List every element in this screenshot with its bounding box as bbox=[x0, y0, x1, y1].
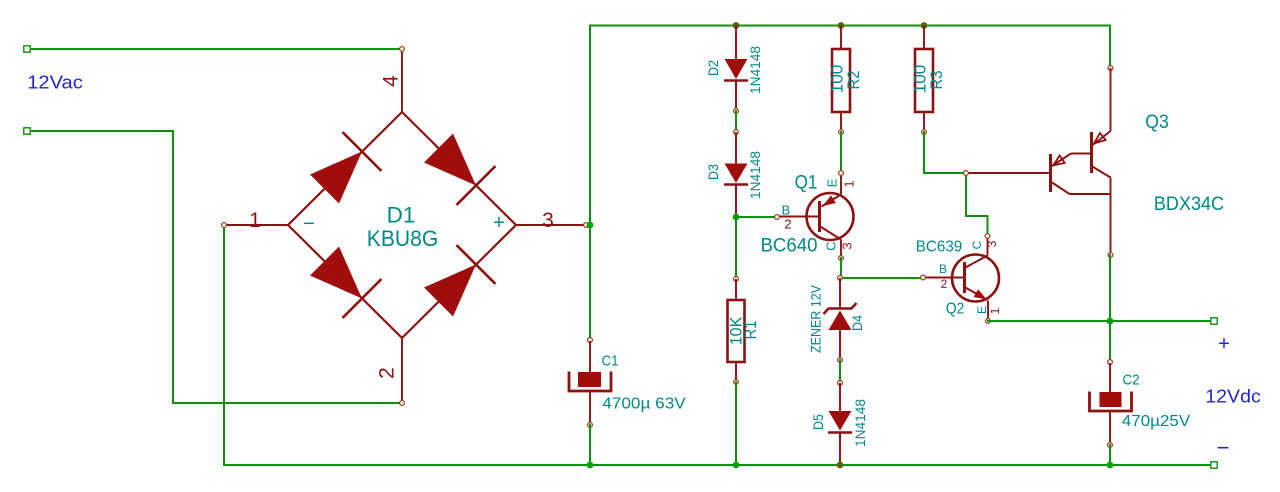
wire-end square bottom rail right bbox=[1211, 462, 1217, 468]
svg-text:Q2: Q2 bbox=[946, 301, 965, 318]
svg-text:1: 1 bbox=[988, 307, 1002, 314]
svg-text:BC640: BC640 bbox=[761, 236, 818, 257]
junction bottom rail at R1 bbox=[733, 462, 740, 469]
wire-end square output plus bbox=[1211, 318, 1217, 324]
wire input A horizontal bbox=[27, 48, 402, 50]
svg-text:1N4148: 1N4148 bbox=[747, 151, 763, 199]
bridge D1 diode upper-right bbox=[424, 134, 476, 186]
svg-text:1N4148: 1N4148 bbox=[747, 46, 763, 94]
svg-text:D1: D1 bbox=[387, 203, 416, 228]
wire C2 to bottom rail bbox=[1109, 445, 1111, 465]
svg-text:12Vdc: 12Vdc bbox=[1205, 386, 1261, 407]
resistor R1 bbox=[728, 277, 745, 385]
svg-text:BC639: BC639 bbox=[916, 239, 963, 256]
wire node to Q2 collector jog bbox=[966, 173, 988, 236]
svg-text:4700µ 63V: 4700µ 63V bbox=[602, 396, 686, 413]
junction top rail at D2 bbox=[733, 22, 740, 29]
svg-text:C: C bbox=[970, 240, 984, 249]
svg-text:D2: D2 bbox=[705, 60, 721, 76]
svg-text:R1: R1 bbox=[741, 321, 760, 340]
svg-text:KBU8G: KBU8G bbox=[367, 226, 439, 251]
svg-text:2: 2 bbox=[784, 217, 791, 232]
svg-text:4: 4 bbox=[380, 75, 403, 87]
svg-text:R3: R3 bbox=[927, 71, 946, 90]
svg-text:BDX34C: BDX34C bbox=[1154, 193, 1224, 215]
wire pin1 down bbox=[223, 225, 225, 465]
wire R3 to Q3 base bbox=[924, 172, 966, 174]
svg-text:B: B bbox=[782, 203, 791, 218]
wire D2 to D3 bbox=[735, 111, 737, 132]
wire top rail to Q3 emitter bbox=[1109, 26, 1111, 69]
svg-text:3: 3 bbox=[542, 209, 554, 232]
wire Q3 collector down bbox=[1109, 255, 1111, 362]
svg-text:E: E bbox=[825, 178, 840, 187]
wire bridge+ vertical bbox=[589, 26, 591, 341]
wire-end square input A bbox=[24, 46, 30, 52]
diode D3 bbox=[724, 130, 748, 217]
svg-text:2: 2 bbox=[376, 367, 399, 379]
resistor R3 bbox=[915, 26, 933, 135]
svg-text:3: 3 bbox=[985, 240, 999, 247]
wire D3 junction to Q1 base bbox=[736, 216, 777, 218]
junction node D3-R1-Q1B bbox=[733, 214, 740, 221]
zener diode D4 bbox=[824, 276, 857, 363]
svg-text:+: + bbox=[493, 212, 505, 234]
svg-text:Q1: Q1 bbox=[795, 173, 818, 194]
wire D4 to D5 bbox=[839, 360, 841, 383]
svg-text:C1: C1 bbox=[601, 353, 618, 370]
junction bottom rail at C2 bbox=[1107, 462, 1114, 469]
svg-text:−: − bbox=[1217, 435, 1230, 460]
capacitor C1 bbox=[569, 338, 611, 428]
wire input B vertical bbox=[172, 131, 174, 403]
svg-text:12Vac: 12Vac bbox=[27, 72, 83, 93]
capacitor C2 bbox=[1090, 360, 1132, 448]
bridge D1 diode lower-left bbox=[310, 247, 362, 299]
wire-end square input B bbox=[24, 128, 30, 134]
junction top rail at R2 bbox=[838, 22, 845, 29]
wire top rail bbox=[590, 25, 1110, 27]
diode D2 bbox=[724, 26, 748, 114]
bridge rectifier D1 body outline bbox=[288, 112, 516, 338]
svg-text:E: E bbox=[975, 306, 989, 314]
wire Q1 collector down bbox=[840, 258, 842, 278]
junction top rail at R3 bbox=[921, 22, 928, 29]
junction bottom rail at D5 bbox=[837, 462, 844, 469]
svg-text:C: C bbox=[824, 241, 839, 250]
bridge D1 pin 4 bbox=[400, 47, 405, 112]
transistor Q1 BC640 bbox=[775, 171, 854, 261]
bridge D1 diode lower-right bbox=[424, 265, 476, 317]
wire R2 to Q1 emitter bbox=[840, 132, 842, 173]
svg-text:+: + bbox=[1218, 333, 1230, 355]
svg-text:2: 2 bbox=[941, 277, 948, 291]
svg-text:Q3: Q3 bbox=[1145, 111, 1168, 133]
svg-text:C2: C2 bbox=[1122, 372, 1139, 389]
svg-text:ZENER 12V: ZENER 12V bbox=[809, 285, 824, 353]
svg-text:470µ25V: 470µ25V bbox=[1122, 413, 1191, 430]
junction bridge pin3 bbox=[587, 222, 594, 229]
svg-text:3: 3 bbox=[840, 242, 855, 249]
diode D5 bbox=[828, 381, 852, 465]
svg-text:D3: D3 bbox=[705, 164, 721, 180]
bridge D1 pin 3 bbox=[516, 223, 588, 228]
svg-text:D5: D5 bbox=[810, 414, 826, 430]
wire C1 to bottom rail bbox=[589, 425, 591, 465]
bridge D1 diode upper-left bbox=[310, 152, 362, 204]
bridge D1 pin 1 bbox=[222, 223, 288, 228]
wire node to Q2 base bbox=[840, 277, 923, 279]
svg-text:1N4148: 1N4148 bbox=[852, 399, 868, 447]
svg-text:B: B bbox=[939, 262, 947, 276]
junction output plus bbox=[1107, 318, 1114, 325]
wire bottom rail bbox=[224, 464, 1214, 466]
wire input B horizontal bbox=[27, 130, 173, 132]
wire D3 junction to R1 bbox=[735, 217, 737, 279]
svg-text:−: − bbox=[303, 213, 315, 235]
svg-text:1: 1 bbox=[249, 209, 261, 232]
wire Q2 emitter to output bbox=[988, 320, 1214, 322]
svg-text:R2: R2 bbox=[844, 71, 863, 90]
resistor R2 bbox=[832, 26, 850, 135]
wire R3 down bbox=[923, 132, 925, 173]
svg-text:1: 1 bbox=[842, 180, 857, 187]
junction bottom rail at C1 bbox=[587, 462, 594, 469]
bridge D1 pin 2 bbox=[400, 338, 405, 405]
transistor Q3 BDX34C bbox=[964, 66, 1113, 258]
svg-text:D4: D4 bbox=[849, 315, 865, 331]
wire input B to pin 2 bbox=[173, 402, 402, 404]
transistor Q2 BC639 bbox=[921, 234, 999, 324]
wire R1 to bottom rail bbox=[735, 382, 737, 465]
